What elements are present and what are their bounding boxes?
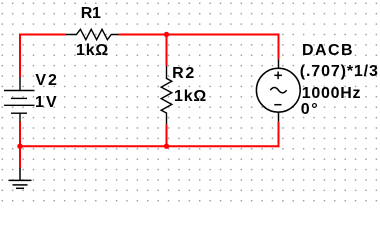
label DACB value line 2 [302,86,362,102]
battery V2 [4,77,35,122]
label R1 value 1k&Omega; [76,43,109,59]
label V2 [35,73,58,89]
label R2 value 1k&Omega; [174,89,207,105]
node junction left (battery/ground/bottom rail) [17,144,22,149]
resistor R1 [66,29,119,39]
wire AC source bottom [278,121,280,147]
label V2 value 1V [35,95,59,111]
wire bottom rail [19,145,280,147]
wire R2 branch lower [166,124,168,146]
node junction bottom (R2/bottom rail) [164,144,169,149]
label DACB value line 3 [301,102,319,118]
resistor R2 [161,66,172,124]
wire top rail left segment [20,35,66,78]
ground [9,168,32,188]
wire battery bottom [19,122,21,147]
label R2 [172,66,196,82]
wire top rail right segment [119,35,279,60]
label DACB value line 1 [300,64,379,80]
AC source DACB [256,59,300,121]
wire R2 branch upper [166,35,168,67]
node junction top (R2/top rail) [164,32,169,37]
wire ground branch [19,146,21,168]
label R1 [81,6,101,22]
label DACB [302,43,354,59]
